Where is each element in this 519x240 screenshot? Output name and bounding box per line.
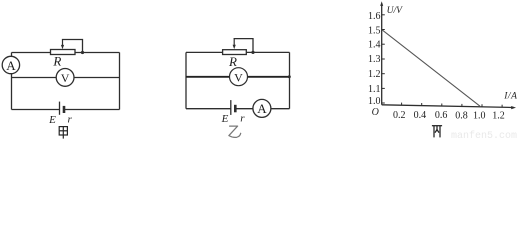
svg-text:1.0: 1.0 — [368, 96, 381, 107]
svg-text:0.6: 0.6 — [435, 110, 448, 121]
battery E r (甲): long plate — [59, 102, 61, 115]
svg-text:1.1: 1.1 — [368, 84, 381, 95]
wire: voltmeter branch, left segment (甲) — [12, 77, 57, 79]
caption 乙 (drawn glyph) — [229, 126, 241, 137]
svg-text:1.2: 1.2 — [368, 69, 381, 80]
resistor R (sliding rheostat body, 乙) — [223, 50, 247, 55]
wire: top-left riser from ammeter to top side (甲) — [11, 53, 13, 57]
wire: bottom side, right of ammeter (乙) — [271, 108, 290, 110]
svg-text:I/A: I/A — [503, 92, 517, 102]
I axis tick marks — [402, 103, 503, 108]
ammeter A (乙) — [253, 99, 271, 117]
svg-text:r: r — [240, 113, 245, 125]
svg-text:1.4: 1.4 — [368, 40, 381, 51]
data line U-I — [382, 30, 480, 106]
resistor R (sliding rheostat body, 甲) — [51, 50, 76, 55]
U axis value labels — [368, 11, 381, 107]
caption 甲 (drawn glyph) — [59, 127, 67, 139]
junction node on top side (甲) — [81, 51, 84, 54]
svg-text:R: R — [52, 53, 61, 68]
junction node at right end of voltmeter row (乙) — [288, 75, 291, 78]
rheostat wiper arrow (甲) — [61, 40, 64, 49]
svg-text:V: V — [234, 70, 243, 84]
battery E r (乙): short thick plate — [234, 105, 237, 113]
svg-text:1.3: 1.3 — [368, 54, 381, 65]
svg-text:V: V — [61, 71, 70, 85]
svg-text:1.2: 1.2 — [492, 111, 505, 122]
svg-text:A: A — [6, 58, 16, 73]
wire: wiper tap up-over-down to top side (甲) — [63, 40, 83, 53]
voltmeter V (乙) — [230, 68, 248, 86]
svg-text:1.6: 1.6 — [368, 11, 381, 22]
battery E r (甲): short thick plate — [63, 106, 66, 113]
svg-text:E: E — [48, 114, 56, 126]
wire: voltmeter row, right segment (bold, 乙) — [248, 76, 290, 78]
svg-text:manfen5.com: manfen5.com — [451, 130, 517, 139]
svg-text:0.8: 0.8 — [455, 110, 468, 121]
svg-text:0.2: 0.2 — [393, 110, 406, 121]
svg-text:r: r — [68, 114, 73, 126]
wire: top side, left segment (乙) — [186, 51, 223, 53]
U axis (vertical) with arrowhead — [380, 1, 383, 105]
wire: right side (乙) — [289, 52, 291, 108]
svg-text:1.5: 1.5 — [368, 25, 381, 36]
ammeter A (甲) — [2, 56, 19, 73]
wire: top side, right segment (甲) — [75, 52, 120, 54]
I axis (horizontal, slight scan droop) with arrowhead — [382, 105, 516, 109]
wire: top side, right segment (乙) — [246, 51, 289, 53]
wire: wiper tap up-over-down to top side (乙) — [234, 39, 253, 53]
svg-text:R: R — [228, 54, 237, 69]
I axis value labels — [393, 110, 505, 122]
battery E r (乙): long plate — [230, 100, 232, 115]
svg-text:U/V: U/V — [387, 6, 404, 16]
junction node on top side (乙) — [251, 51, 254, 54]
wire: top side, left segment (甲) — [12, 52, 51, 54]
wire: left side (乙) — [185, 52, 187, 108]
wire: left side below ammeter (甲) — [11, 73, 13, 109]
caption 丙 (drawn glyph) — [432, 126, 442, 138]
wire: right side (甲) — [119, 53, 121, 110]
U axis tick marks — [382, 15, 385, 103]
wire: bottom side, left segment (甲) — [12, 109, 60, 111]
wire: bottom side, right segment (甲) — [64, 109, 120, 111]
wire: bottom side, between battery and ammeter (乙) — [235, 108, 253, 110]
svg-text:O: O — [372, 107, 379, 118]
svg-text:0.4: 0.4 — [414, 110, 427, 121]
wire: voltmeter row, left segment (bold, 乙) — [186, 76, 230, 78]
svg-text:A: A — [257, 101, 267, 116]
svg-text:1.0: 1.0 — [473, 111, 486, 122]
wire: bottom side, left segment (乙) — [186, 108, 231, 110]
wire: voltmeter branch, right segment (甲) — [74, 77, 120, 79]
voltmeter V (甲) — [56, 69, 74, 87]
rheostat wiper arrow (乙) — [233, 39, 236, 49]
svg-text:E: E — [221, 113, 229, 125]
